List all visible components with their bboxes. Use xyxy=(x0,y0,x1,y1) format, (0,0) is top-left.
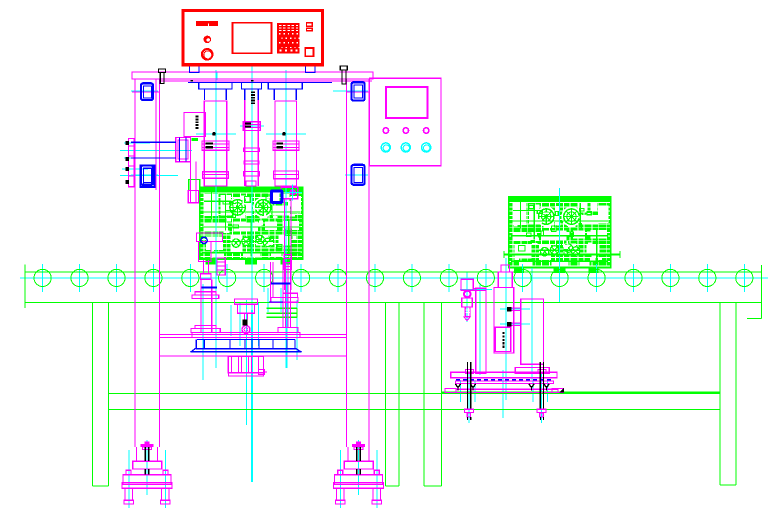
right guide ladder xyxy=(284,255,291,270)
lift center nut xyxy=(243,319,248,325)
conveyor roller 15 xyxy=(551,269,568,286)
controller keypad xyxy=(277,23,300,53)
lift long tie line upper xyxy=(160,335,347,338)
cylinder 2 dotted stud xyxy=(251,91,255,104)
hanger 3 xyxy=(268,82,302,89)
station bolt rods xyxy=(468,362,544,420)
station under-plate dashes xyxy=(456,379,553,381)
hanger 2 xyxy=(242,82,262,89)
conveyor roller 7 xyxy=(256,269,273,286)
conveyor leg B xyxy=(385,302,399,486)
station right cylinder xyxy=(515,299,549,373)
station mid plate xyxy=(456,381,554,384)
station post xyxy=(476,288,486,373)
right column bracket upper xyxy=(352,82,365,100)
station window dashes xyxy=(503,332,505,348)
right column xyxy=(346,79,369,447)
conveyor roller 13 xyxy=(477,269,494,286)
lift right post xyxy=(271,260,298,333)
press cylinder 3 xyxy=(273,101,299,186)
press cylinder 2 center xyxy=(243,89,260,186)
conveyor leg D xyxy=(720,302,736,485)
station base plate xyxy=(451,372,557,378)
control panel knobs xyxy=(383,128,429,133)
right block centerline xyxy=(559,188,561,302)
conveyor roller 3 xyxy=(108,269,125,286)
conveyor roller 17 xyxy=(625,269,642,286)
conveyor leg C xyxy=(424,302,441,486)
conveyor roller 2 xyxy=(71,269,88,286)
controller small knob xyxy=(204,36,211,43)
conveyor roller 11 xyxy=(403,269,420,286)
control panel buttons xyxy=(381,143,431,152)
side mech pivot housing xyxy=(176,138,191,162)
left guide ladder xyxy=(217,258,225,275)
conveyor roller 10 xyxy=(366,269,383,286)
right clamp rods xyxy=(285,199,292,290)
conveyor centerline xyxy=(20,277,768,279)
plate bolt left xyxy=(159,69,166,84)
lift post top bracket right xyxy=(269,284,291,303)
lift center ring xyxy=(242,326,250,334)
conveyor right end plate xyxy=(747,265,762,319)
station foot right xyxy=(537,409,546,417)
press main center axis xyxy=(251,66,253,482)
side mechanism green pad xyxy=(189,138,200,190)
station anchor clips xyxy=(455,384,549,391)
press axis left cylinder xyxy=(215,70,217,368)
controller slot lower xyxy=(307,28,313,31)
machine foot rods xyxy=(145,447,360,475)
side mech blue box xyxy=(140,165,154,186)
controller big knob xyxy=(202,49,213,60)
side mech push rods xyxy=(131,142,176,158)
centerline ticks under controller xyxy=(217,72,286,80)
conveyor roller 16 xyxy=(588,269,605,286)
station cylinder cap xyxy=(501,265,510,272)
controller screen xyxy=(233,23,272,54)
side bracket bolts xyxy=(126,141,129,184)
weld mark xyxy=(559,388,564,393)
lift blue beam xyxy=(191,340,302,353)
side mech clamp head xyxy=(197,233,223,261)
engine block on conveyor right xyxy=(508,196,611,273)
side mech arm xyxy=(188,162,198,203)
lift main plate xyxy=(192,332,300,337)
lift left post xyxy=(191,260,220,332)
lower shelf brace upper xyxy=(109,392,720,395)
station lower plate xyxy=(445,389,564,393)
machine foot right xyxy=(334,442,384,505)
lift green clamp bracket xyxy=(267,308,297,317)
station side bolt upper xyxy=(507,307,521,312)
station cylinder window xyxy=(495,327,511,351)
lift center funnel xyxy=(234,299,257,319)
conveyor roller 19 xyxy=(699,269,716,286)
conveyor roller 4 xyxy=(145,269,162,286)
conveyor leg A xyxy=(93,302,109,486)
lift table centerlines xyxy=(203,284,297,425)
block bearing square xyxy=(271,191,282,203)
controller logo xyxy=(196,21,218,26)
conveyor top rail xyxy=(25,271,761,273)
lower shelf brace lower xyxy=(109,408,720,410)
station cylinder neck xyxy=(498,272,512,288)
conveyor roller 12 xyxy=(440,269,457,286)
column bracket centerlines xyxy=(131,91,368,175)
conveyor roller 5 xyxy=(182,269,199,286)
clamp head pin circle xyxy=(201,237,207,243)
controller slot upper xyxy=(307,23,313,26)
lift guide block xyxy=(228,356,267,376)
side mech upper body xyxy=(184,112,205,136)
machine feet centerlines xyxy=(129,440,377,508)
cylinder 3 top stub xyxy=(274,89,296,100)
lift long tie line lower xyxy=(160,355,347,357)
cylinder 2 band mark xyxy=(245,123,251,128)
conveyor roller 8 xyxy=(293,269,310,286)
plate bolt right xyxy=(340,66,347,84)
plate tick marks xyxy=(191,80,254,82)
hanger 1 xyxy=(199,82,232,89)
machine foot left xyxy=(122,442,172,505)
station bolt nuts xyxy=(465,370,546,374)
station cylinder body xyxy=(494,288,514,353)
side mech pivot pins xyxy=(180,138,187,162)
block top clamp xyxy=(281,185,302,201)
cylinder 3 band mark xyxy=(276,142,283,148)
conveyor roller 6 xyxy=(219,269,236,286)
press axis right cylinder xyxy=(285,70,287,368)
left column bracket upper xyxy=(141,83,153,100)
left column xyxy=(135,79,160,447)
lift post top bracket left xyxy=(202,287,218,289)
press top plate xyxy=(132,72,373,79)
conveyor roller 20 xyxy=(736,269,753,286)
controller foot left xyxy=(190,66,200,73)
cylinder 1 top stub xyxy=(204,89,226,100)
engine block on press station xyxy=(199,187,303,265)
controller foot right xyxy=(306,66,316,73)
conveyor roller 1 xyxy=(34,269,51,286)
controller square button xyxy=(305,48,313,56)
station probe bracket xyxy=(461,279,486,321)
right column bracket lower xyxy=(352,165,365,185)
left column plate joint xyxy=(132,91,160,93)
conveyor roller 14 xyxy=(514,269,531,286)
control panel screen xyxy=(386,87,428,118)
cylinder band centerlines xyxy=(196,126,306,134)
band tick dots xyxy=(213,133,286,136)
conveyor roller 18 xyxy=(662,269,679,286)
right block datum line xyxy=(504,251,620,258)
control panel box xyxy=(370,78,441,166)
press top plate lower edge line xyxy=(160,80,373,82)
station side bolt lower xyxy=(507,322,521,327)
conveyor roller 9 xyxy=(329,269,346,286)
conveyor bottom rail xyxy=(25,301,761,303)
left column bracket lower xyxy=(141,165,153,184)
conveyor left end plate xyxy=(24,264,26,308)
station foot left xyxy=(465,409,474,417)
roller centerline ticks xyxy=(43,264,745,292)
hanger rail xyxy=(188,81,332,83)
side mech dotted stud xyxy=(196,116,199,130)
side mechanism centerlines xyxy=(120,143,192,176)
controller box xyxy=(183,11,323,67)
cylinder 1 band mark xyxy=(206,142,214,148)
right column plate joint xyxy=(346,91,370,93)
right station centerlines xyxy=(460,258,548,423)
side mech bracket plate xyxy=(128,139,134,187)
press cylinder 1 xyxy=(202,101,229,186)
